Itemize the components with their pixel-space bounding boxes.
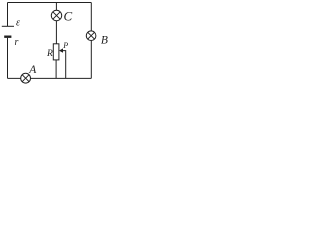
svg-text:r: r xyxy=(15,37,19,48)
svg-text:ε: ε xyxy=(16,18,20,29)
svg-text:P: P xyxy=(62,41,68,50)
svg-text:R: R xyxy=(46,49,53,59)
svg-text:A: A xyxy=(28,64,37,76)
svg-text:B: B xyxy=(101,35,108,47)
svg-text:C: C xyxy=(64,8,73,23)
